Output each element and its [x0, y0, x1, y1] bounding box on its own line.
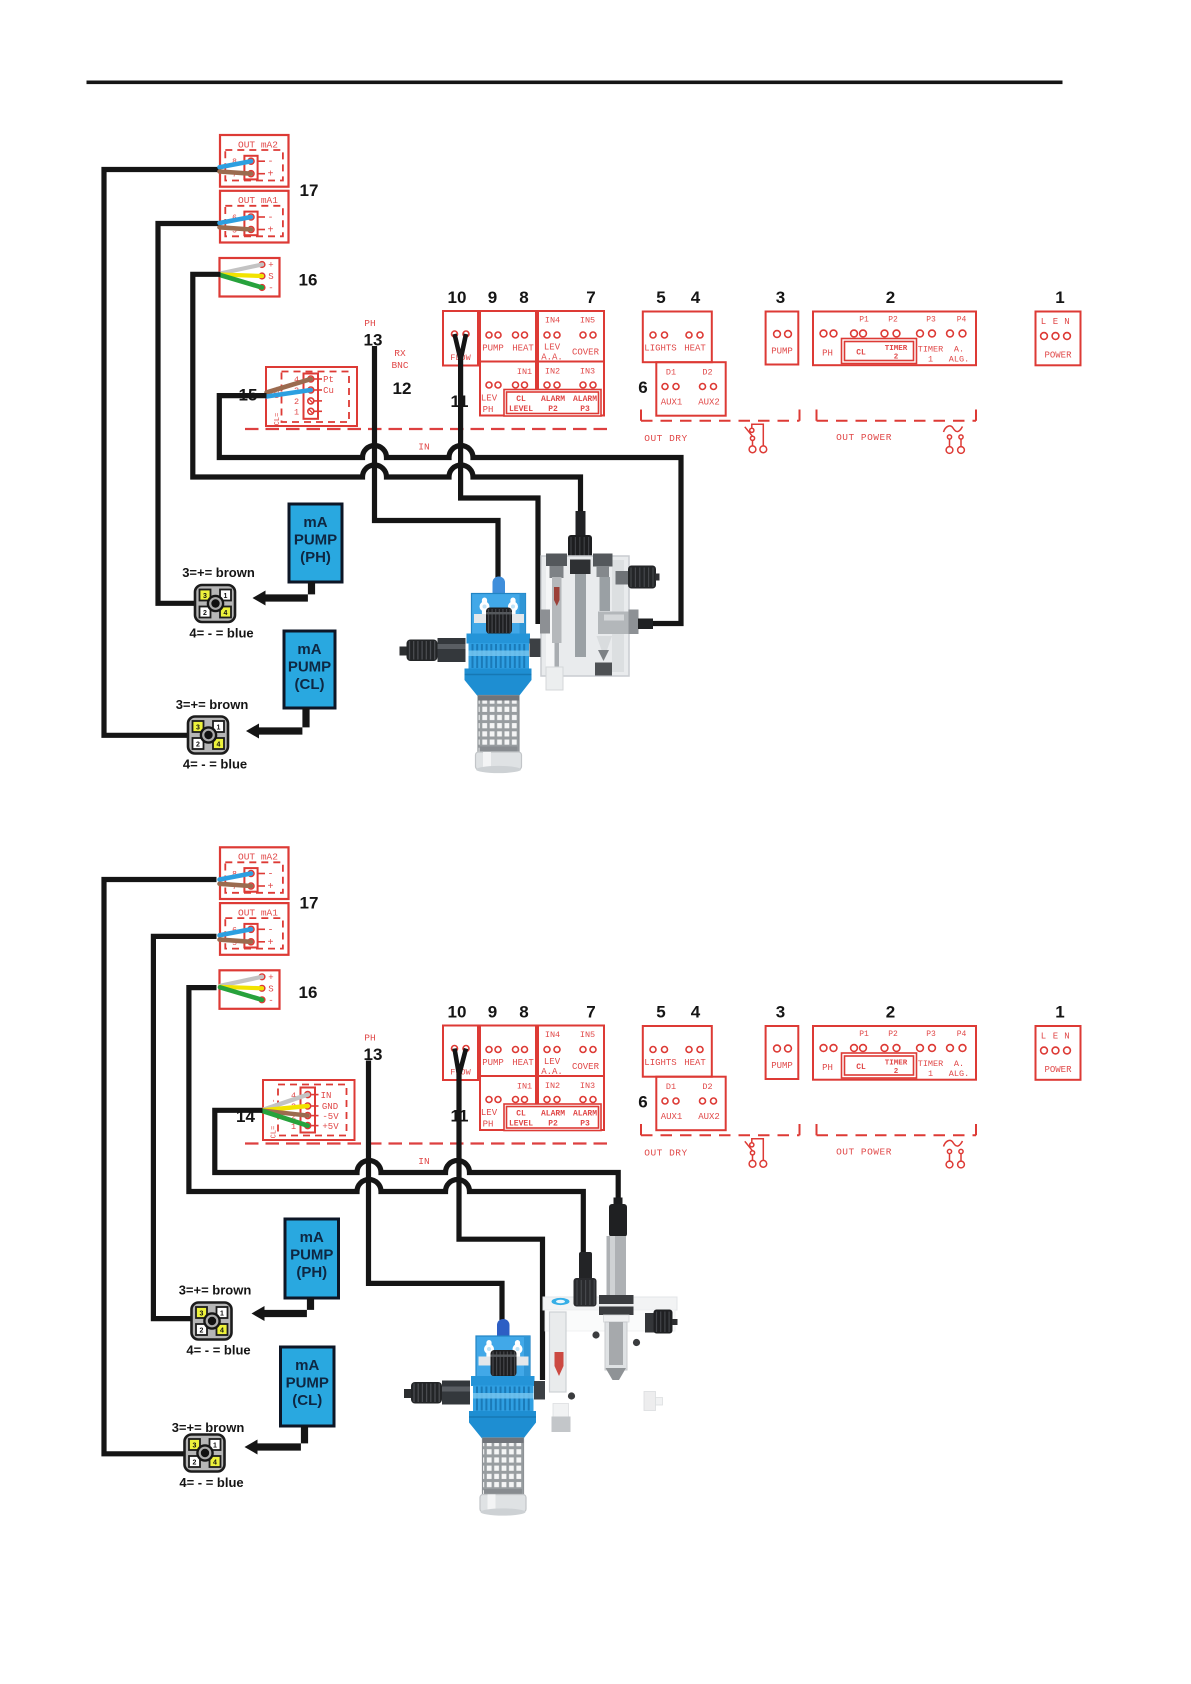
brown wire to terminal 2	[263, 1111, 308, 1116]
svg-text:TIMER: TIMER	[918, 345, 944, 355]
svg-text:IN: IN	[418, 1156, 429, 1167]
connector CL (bottom) pin3 (yellow)	[189, 1439, 200, 1450]
svg-text:HEAT: HEAT	[512, 344, 534, 354]
connector CL (bottom) pin4 (yellow)	[210, 1456, 221, 1467]
right compression fitting (bottom device)	[645, 1310, 678, 1334]
svg-text:9: 9	[488, 288, 497, 307]
svg-text:LIGHTS: LIGHTS	[644, 1058, 676, 1068]
svg-text:P3: P3	[926, 1030, 936, 1039]
brown wire into OUT mA2	[220, 172, 252, 174]
svg-text:RX: RX	[394, 348, 406, 359]
svg-text:3: 3	[193, 1443, 197, 1450]
top rule line	[87, 81, 1063, 85]
svg-text:A.: A.	[954, 345, 964, 355]
svg-text:HEAT: HEAT	[512, 1058, 534, 1068]
svg-text:-5V: -5V	[322, 1112, 339, 1122]
inner box CL / TIMER 2	[842, 1053, 917, 1078]
svg-text:ALARM: ALARM	[541, 1110, 565, 1119]
svg-text:1: 1	[928, 1069, 933, 1079]
svg-text:OUT DRY: OUT DRY	[644, 433, 687, 444]
terminal block 16 terminal S	[259, 986, 265, 992]
svg-text:1: 1	[1055, 1003, 1064, 1022]
connector PH (top) pin2 (white)	[200, 607, 211, 618]
svg-text:mA: mA	[300, 1229, 324, 1246]
terminal block D1/D2 AUX1/AUX2 (6)	[656, 1077, 725, 1131]
ORP probe (bottom device)	[574, 1252, 597, 1307]
brown wire into OUT mA1	[220, 940, 252, 942]
svg-text:Cu: Cu	[323, 386, 334, 396]
terminal block LIGHTS/HEAT (5,4)	[643, 1026, 712, 1077]
svg-text:ALG.: ALG.	[949, 355, 969, 365]
svg-text:PH: PH	[822, 1063, 833, 1073]
terminal block OUT mA2 inner dashed box	[225, 150, 283, 181]
terminal block OUT mA2 outer box	[220, 847, 289, 899]
svg-text:OUT mA1: OUT mA1	[238, 195, 278, 206]
white angle fitting (bottom device)	[644, 1392, 656, 1411]
wire 11 flow sensor (bottom)	[455, 1049, 467, 1077]
terminal block 14 outer box	[263, 1080, 355, 1140]
svg-text:PUMP: PUMP	[482, 344, 504, 354]
svg-text:3: 3	[776, 288, 785, 307]
svg-text:L: L	[1041, 1032, 1046, 1042]
svg-text:CL=: CL=	[271, 1126, 279, 1139]
svg-text:3=+= brown: 3=+= brown	[176, 697, 249, 712]
svg-text:8: 8	[519, 288, 528, 307]
svg-text:PUMP: PUMP	[294, 532, 337, 549]
svg-text:OUT POWER: OUT POWER	[836, 1147, 892, 1158]
terminal block 16 terminal +	[259, 262, 265, 268]
svg-text:PUMP: PUMP	[286, 1375, 329, 1392]
svg-text:PUMP: PUMP	[290, 1247, 333, 1264]
svg-text:P4: P4	[957, 1030, 967, 1039]
svg-text:4: 4	[224, 610, 228, 617]
terminal block 16 box	[220, 970, 280, 1009]
svg-text:AUX1: AUX1	[661, 398, 683, 408]
svg-text:IN3: IN3	[580, 367, 595, 377]
svg-text:-: -	[268, 284, 273, 294]
terminal block OUT mA1 outer box	[220, 903, 289, 955]
svg-text:LEVEL: LEVEL	[509, 1120, 533, 1129]
terminal block OUT mA1 outer box	[220, 191, 289, 243]
wire from OUT mA2 to CL connector (top)	[104, 170, 221, 736]
svg-text:P1: P1	[859, 1030, 869, 1039]
svg-text:A.: A.	[954, 1059, 964, 1069]
relay contact symbol (OUT DRY)	[745, 1139, 767, 1167]
svg-text:ALARM: ALARM	[573, 1110, 597, 1119]
brown wire to terminal 4	[267, 379, 311, 393]
svg-text:+: +	[268, 973, 273, 983]
gray wire to terminal 4	[263, 1095, 308, 1110]
wire 11 flow sensor (top)	[455, 334, 467, 361]
connector CL (top) pin4 (yellow)	[213, 738, 224, 749]
svg-text:5: 5	[656, 1003, 665, 1022]
pH electrode probe (bottom device)	[599, 1198, 634, 1381]
svg-text:COVER: COVER	[572, 348, 600, 358]
connector PH (top) body	[195, 585, 235, 622]
yellow wire to terminal 3	[263, 1106, 308, 1110]
svg-text:CL: CL	[856, 1063, 866, 1072]
blue wire into OUT mA1	[220, 929, 252, 935]
svg-text:IN1: IN1	[517, 367, 532, 377]
terminal block POWER (1)	[1036, 312, 1081, 366]
svg-text:PUMP: PUMP	[288, 659, 331, 676]
wire from OUT mA1 to PH connector (top)	[158, 224, 221, 604]
svg-text:PUMP: PUMP	[771, 347, 793, 357]
bus wire from block 16 (top, lower bus)	[193, 274, 581, 514]
terminal block PUMP (3)	[766, 1026, 799, 1079]
svg-text:IN: IN	[321, 1091, 332, 1101]
terminal block 16 terminal S	[259, 273, 265, 279]
svg-text:D2: D2	[702, 368, 712, 378]
green wire in 16	[220, 275, 262, 288]
terminal block IN1 / LEV PH	[480, 1076, 536, 1130]
connector PH (bottom) center socket	[204, 1313, 219, 1328]
dashed bracket OUT POWER	[816, 410, 818, 421]
svg-text:2: 2	[200, 1328, 204, 1335]
svg-text:1: 1	[213, 1443, 217, 1450]
relay contact symbol (OUT DRY)	[745, 424, 767, 452]
svg-text:OUT POWER: OUT POWER	[836, 432, 892, 443]
blue wire into OUT mA2	[220, 161, 252, 167]
svg-text:2: 2	[196, 742, 200, 749]
connector PH (bottom) pin4 (yellow)	[217, 1324, 228, 1335]
terminal block OUT mA2 terminal box	[244, 868, 257, 892]
svg-text:P2: P2	[548, 1120, 558, 1129]
svg-text:9: 9	[488, 1003, 497, 1022]
blue wire into OUT mA2	[220, 874, 252, 880]
mA PUMP (CL) box	[284, 631, 335, 708]
svg-text:LEV: LEV	[481, 394, 498, 404]
svg-text:PH: PH	[364, 318, 375, 329]
dashed IN separator line	[245, 1142, 607, 1144]
connector CL (top) center socket	[201, 727, 216, 742]
terminal block 15 outer box	[266, 367, 357, 426]
dashed bracket OUT DRY	[640, 410, 642, 421]
svg-text:LIGHTS: LIGHTS	[644, 344, 676, 354]
terminal block 14 inner dashed box	[278, 1085, 347, 1136]
svg-text:OUT DRY: OUT DRY	[644, 1148, 687, 1159]
arrow from mA PUMP (CL) bottom	[257, 1426, 309, 1451]
terminal block OUT mA2 outer box	[220, 135, 289, 187]
svg-text:2: 2	[193, 1460, 197, 1467]
overlay box CL LEVEL / ALARM P2 / ALARM P3	[504, 1104, 601, 1131]
svg-text:P2: P2	[888, 1030, 898, 1039]
svg-text:GND: GND	[322, 1102, 338, 1112]
svg-text:LEV: LEV	[544, 343, 561, 353]
svg-text:PUMP: PUMP	[482, 1058, 504, 1068]
svg-text:mA: mA	[295, 1357, 319, 1374]
terminal block OUT mA2 terminal box	[244, 156, 257, 180]
svg-text:PH: PH	[364, 1033, 375, 1044]
svg-text:ALG.: ALG.	[949, 1069, 969, 1079]
svg-text:COVER: COVER	[572, 1062, 600, 1072]
svg-text:TIMER: TIMER	[885, 1060, 908, 1068]
terminal block 16 terminal +	[259, 974, 265, 980]
brown wire into OUT mA2	[220, 884, 252, 886]
dashed bracket OUT DRY	[640, 1124, 642, 1135]
wire from OUT mA1 to PH connector (bottom)	[153, 936, 216, 1318]
svg-text:2: 2	[886, 1003, 895, 1022]
wire 13 PH probe (top)	[375, 346, 499, 580]
svg-text:Pt: Pt	[323, 375, 334, 385]
svg-text:2: 2	[203, 610, 207, 617]
svg-text:1: 1	[928, 355, 933, 365]
svg-text:4= - = blue: 4= - = blue	[183, 757, 247, 772]
svg-text:1: 1	[220, 1311, 224, 1318]
svg-text:OUT mA2: OUT mA2	[238, 852, 278, 863]
connector PH (bottom) body	[192, 1303, 232, 1340]
connector PH (top) center socket	[208, 596, 223, 611]
svg-text:AUX1: AUX1	[661, 1112, 683, 1122]
svg-text:IN3: IN3	[580, 1081, 595, 1091]
svg-text:4: 4	[217, 742, 221, 749]
svg-text:3=+= brown: 3=+= brown	[172, 1420, 245, 1435]
power contact symbol (OUT POWER)	[944, 1140, 965, 1167]
overlay box CL LEVEL / ALARM P2 / ALARM P3	[504, 390, 601, 417]
svg-text:10: 10	[448, 288, 467, 307]
svg-text:LEVEL: LEVEL	[509, 405, 533, 414]
svg-text:+: +	[267, 938, 273, 949]
terminal block 16 box	[220, 258, 280, 297]
terminal block POWER (1)	[1036, 1026, 1081, 1080]
svg-text:OUT mA2: OUT mA2	[238, 139, 278, 150]
svg-text:6: 6	[638, 378, 647, 397]
gray wire in 16	[220, 977, 262, 986]
svg-text:IN5: IN5	[580, 1030, 595, 1040]
connector CL (bottom) pin2 (white)	[189, 1456, 200, 1467]
svg-text:N: N	[1064, 1032, 1069, 1042]
terminal block IN4/IN5 LEV A.A. COVER (7)	[538, 311, 604, 362]
terminal block IN2/IN3	[538, 362, 604, 416]
arrow from mA PUMP (PH) top	[265, 582, 316, 602]
svg-text:POWER: POWER	[1044, 351, 1072, 361]
svg-text:-: -	[267, 213, 273, 224]
svg-text:1: 1	[294, 407, 299, 417]
terminal block PUMP/HEAT (9,8)	[480, 311, 536, 362]
terminal block 15 inner dashed box	[282, 372, 350, 423]
svg-text:16: 16	[299, 983, 318, 1002]
svg-text:3=+= brown: 3=+= brown	[179, 1283, 252, 1298]
svg-text:PUMP: PUMP	[771, 1061, 793, 1071]
svg-text:ALARM: ALARM	[541, 395, 565, 404]
svg-text:+5V: +5V	[322, 1122, 339, 1132]
svg-text:IN4: IN4	[545, 316, 560, 326]
yellow wire in 16	[220, 987, 262, 989]
wire from OUT mA2 to CL connector (bottom)	[104, 880, 217, 1454]
svg-text:+: +	[268, 261, 273, 271]
svg-text:4: 4	[213, 1460, 217, 1467]
svg-text:D1: D1	[666, 368, 676, 378]
terminal block OUT mA1 inner dashed box	[225, 206, 283, 237]
svg-text:HEAT: HEAT	[684, 344, 706, 354]
svg-text:-: -	[267, 157, 273, 168]
terminal block FLOW (10)	[443, 311, 478, 366]
svg-text:OUT mA1: OUT mA1	[238, 907, 278, 918]
svg-text:5: 5	[656, 288, 665, 307]
svg-text:P1: P1	[859, 316, 869, 325]
svg-text:16: 16	[299, 271, 318, 290]
dosing pump top	[400, 577, 541, 774]
terminal block P1-P4 (2)	[813, 312, 976, 366]
terminal block IN2/IN3	[538, 1076, 604, 1130]
manifold plate (bottom device)	[543, 1297, 677, 1400]
svg-text:CL=: CL=	[274, 413, 282, 426]
svg-text:P3: P3	[580, 405, 590, 414]
svg-text:(CL): (CL)	[295, 676, 325, 693]
svg-text:(CL): (CL)	[292, 1392, 322, 1409]
svg-text:-: -	[267, 870, 273, 881]
dosing pump bottom	[404, 1319, 545, 1516]
svg-text:AUX2: AUX2	[698, 1112, 720, 1122]
blue wire to terminal 3	[267, 390, 311, 397]
svg-text:10: 10	[448, 1003, 467, 1022]
svg-text:LEV: LEV	[481, 1108, 498, 1118]
svg-text:PH: PH	[483, 405, 494, 415]
connector PH (top) pin4 (yellow)	[220, 607, 231, 618]
svg-text:L: L	[1041, 317, 1046, 327]
svg-text:BNC: BNC	[391, 360, 408, 371]
terminal block FLOW (10)	[443, 1026, 478, 1081]
svg-text:(PH): (PH)	[296, 1264, 327, 1281]
svg-text:2: 2	[294, 397, 299, 407]
connector CL (top) pin3 (yellow)	[193, 721, 204, 732]
terminal block 15 terminal strip	[304, 374, 319, 419]
svg-text:IN: IN	[418, 442, 429, 453]
connector CL (top) pin2 (white)	[193, 738, 204, 749]
svg-text:3: 3	[196, 725, 200, 732]
connector PH (top) pin3 (yellow)	[200, 590, 211, 601]
svg-text:IN1: IN1	[517, 1082, 532, 1092]
svg-text:ALARM: ALARM	[573, 395, 597, 404]
svg-text:6: 6	[638, 1093, 647, 1112]
bus wire from block 14 (bottom, upper bus)	[215, 1110, 618, 1203]
arrow from mA PUMP (PH) bottom	[264, 1298, 315, 1317]
svg-text:3: 3	[203, 593, 207, 600]
mA PUMP (CL) box	[281, 1347, 335, 1426]
svg-text:HEAT: HEAT	[684, 1058, 706, 1068]
svg-text:P4: P4	[957, 316, 967, 325]
svg-text:E: E	[1053, 317, 1058, 327]
connector PH (bottom) pin2 (white)	[196, 1324, 207, 1335]
terminal block OUT mA1 terminal box	[244, 212, 257, 236]
svg-text:1: 1	[224, 593, 228, 600]
svg-text:2: 2	[886, 288, 895, 307]
terminal block OUT mA1 inner dashed box	[225, 918, 283, 949]
terminal block 14 terminal strip	[301, 1088, 316, 1133]
terminal block PUMP/HEAT (9,8)	[480, 1026, 536, 1077]
svg-text:P2: P2	[548, 405, 558, 414]
mA PUMP (PH) box	[289, 504, 342, 582]
svg-text:1: 1	[1055, 288, 1064, 307]
wire 13 PH probe (bottom)	[369, 1061, 503, 1321]
terminal block PUMP (3)	[766, 312, 799, 365]
svg-text:AUX2: AUX2	[698, 398, 720, 408]
connector CL (bottom) center socket	[197, 1445, 212, 1460]
terminal block IN4/IN5 LEV A.A. COVER (7)	[538, 1026, 604, 1077]
svg-text:7: 7	[586, 1003, 595, 1022]
svg-text:E: E	[1053, 1032, 1058, 1042]
dashed IN separator line	[245, 428, 607, 430]
svg-text:+: +	[267, 882, 273, 893]
svg-text:IN2: IN2	[545, 1081, 560, 1091]
connector CL (top) body	[188, 717, 228, 754]
inner box CL / TIMER 2	[842, 339, 917, 364]
svg-text:IN5: IN5	[580, 316, 595, 326]
flow cell assembly (top device)	[540, 511, 660, 690]
terminal block D1/D2 AUX1/AUX2 (6)	[656, 362, 725, 416]
svg-text:7: 7	[586, 288, 595, 307]
bus wire from block 15 (top, upper bus)	[219, 396, 681, 624]
terminal block OUT mA2 inner dashed box	[225, 862, 283, 893]
terminal block 16 terminal -	[259, 285, 265, 291]
svg-text:4: 4	[220, 1328, 224, 1335]
power contact symbol (OUT POWER)	[944, 426, 965, 453]
svg-text:D2: D2	[702, 1082, 712, 1092]
bus wire from block 16 (bottom, lower bus)	[189, 988, 583, 1256]
svg-text:17: 17	[300, 893, 319, 912]
svg-text:CL: CL	[516, 395, 526, 404]
svg-text:mA: mA	[303, 514, 327, 531]
dashed bracket OUT POWER	[816, 1124, 818, 1135]
svg-text:4= - = blue: 4= - = blue	[186, 1343, 250, 1358]
terminal block P1-P4 (2)	[813, 1026, 976, 1080]
svg-text:3: 3	[200, 1311, 204, 1318]
connector PH (bottom) pin3 (yellow)	[196, 1307, 207, 1318]
svg-text:3=+= brown: 3=+= brown	[182, 565, 255, 580]
svg-text:4: 4	[691, 288, 701, 307]
green wire in 16	[220, 987, 262, 1000]
yellow wire in 16	[220, 275, 262, 277]
svg-text:CL: CL	[856, 349, 866, 358]
connector CL (bottom) pin1 (white)	[210, 1439, 221, 1450]
mA PUMP (PH) box	[285, 1219, 339, 1298]
svg-text:+: +	[267, 226, 273, 237]
svg-text:8: 8	[519, 1003, 528, 1022]
svg-text:PH: PH	[822, 349, 833, 359]
svg-text:POWER: POWER	[1044, 1065, 1072, 1075]
svg-text:LEV: LEV	[544, 1057, 561, 1067]
green wire to terminal 1	[263, 1111, 308, 1126]
svg-text:P3: P3	[580, 1120, 590, 1129]
svg-text:mA: mA	[297, 641, 321, 658]
terminal block IN1 / LEV PH	[480, 362, 536, 416]
connector PH (bottom) pin1 (white)	[217, 1307, 228, 1318]
svg-text:IN4: IN4	[545, 1030, 560, 1040]
svg-text:D1: D1	[666, 1082, 676, 1092]
svg-text:2: 2	[894, 354, 899, 362]
arrow from mA PUMP (CL) top	[258, 708, 310, 735]
flow indicator tube (bottom device)	[550, 1312, 571, 1432]
svg-text:P2: P2	[888, 316, 898, 325]
svg-text:12: 12	[393, 379, 412, 398]
terminal block 16 terminal -	[259, 997, 265, 1003]
svg-text:1: 1	[217, 725, 221, 732]
svg-text:S: S	[268, 985, 273, 995]
gray wire in 16	[220, 265, 262, 274]
svg-text:CL: CL	[516, 1110, 526, 1119]
connector PH (top) pin1 (white)	[220, 590, 231, 601]
svg-text:IN2: IN2	[545, 367, 560, 377]
terminal block OUT mA1 terminal box	[244, 924, 257, 948]
svg-text:TIMER: TIMER	[918, 1059, 944, 1069]
svg-text:2: 2	[894, 1068, 899, 1076]
svg-text:3: 3	[776, 1003, 785, 1022]
svg-text:-: -	[268, 996, 273, 1006]
svg-text:-: -	[267, 925, 273, 936]
svg-text:TIMER: TIMER	[885, 345, 908, 353]
connector CL (top) pin1 (white)	[213, 721, 224, 732]
svg-text:N: N	[1064, 317, 1069, 327]
